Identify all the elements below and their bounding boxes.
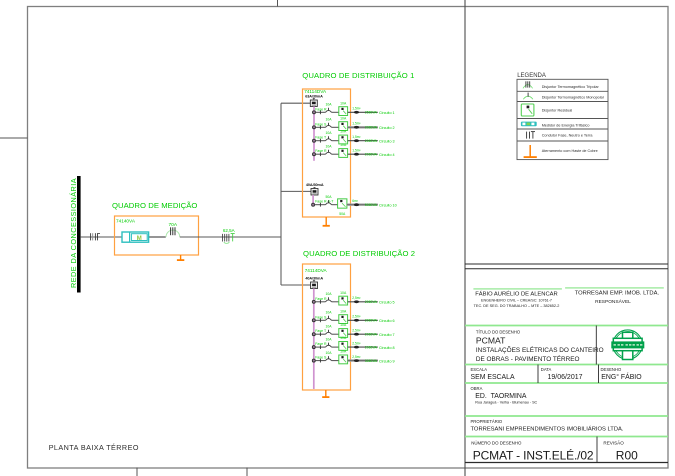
svg-text:Circuito 3: Circuito 3 — [379, 140, 395, 144]
svg-text:10A: 10A — [325, 325, 332, 329]
residual breaker DR 63A/30mA (QD1 main) — [305, 94, 323, 106]
residual breaker DR 40A/30mA (QD1 sub) — [306, 183, 324, 195]
wire: circuito 6 breaker to DR — [332, 319, 339, 321]
wire: branch to QD1 main DR — [281, 102, 311, 104]
svg-text:OBRA: OBRA — [471, 386, 483, 391]
svg-text:2080VA: 2080VA — [365, 346, 378, 350]
wire: circuito 5 breaker to DR — [332, 301, 339, 303]
svg-text:Fase T: Fase T — [315, 136, 327, 140]
wire: circuito 3 outgoing cable (1,5m², 2080VA) — [348, 135, 395, 144]
svg-text:DE OBRAS - PAVIMENTO TÉRREO: DE OBRAS - PAVIMENTO TÉRREO — [476, 354, 580, 363]
svg-text:1,5m²: 1,5m² — [352, 122, 360, 126]
ground: haste de aterramento (QD1) — [323, 217, 330, 227]
svg-text:40A/30mA: 40A/30mA — [306, 183, 324, 187]
svg-text:10A: 10A — [325, 131, 332, 135]
svg-text:INSTALAÇÕES ELÉTRICAS DO CANTE: INSTALAÇÕES ELÉTRICAS DO CANTEIRO — [476, 345, 604, 354]
wire: circuito 2 breaker to DR — [332, 126, 339, 128]
svg-text:63A/30mA: 63A/30mA — [305, 94, 323, 98]
wire: circuito 10 outgoing cable (6m², 5080VA) — [347, 199, 397, 208]
legend symbol: condutor fase neutro e terra — [527, 132, 594, 139]
svg-text:74140VA: 74140VA — [116, 218, 136, 223]
svg-text:2,5m²: 2,5m² — [352, 296, 360, 300]
node: QD1 bus tap circuito 3 — [313, 136, 327, 143]
residual breaker 10A circuito 4 — [339, 143, 348, 157]
legend symbol: disjuntor termomagnetico monopolar — [523, 93, 604, 100]
wire: branch to QD1 second DR — [281, 190, 311, 192]
svg-text:TÍTULO DO DESENHO: TÍTULO DO DESENHO — [476, 330, 521, 335]
svg-text:2080VA: 2080VA — [365, 300, 378, 304]
bus: QD1 sub bus (magenta) — [312, 195, 314, 205]
svg-text:Circuito 2: Circuito 2 — [379, 126, 395, 130]
residual breaker 10A circuito 5 — [339, 291, 348, 305]
wire: circuito 7 outgoing cable (2,5m², 2080VA) — [348, 329, 395, 338]
breaker 10A monopolar circuito 8 — [325, 338, 332, 348]
node: QD2 bus tap circuito 8 — [312, 342, 327, 349]
wire: circuito 1 breaker to DR — [332, 111, 339, 113]
wire: circuito 2 outgoing cable (1,5m², 2080VA) — [348, 122, 395, 131]
breaker 10A monopolar circuito 6 — [325, 311, 332, 321]
svg-text:Circuito 9: Circuito 9 — [379, 359, 395, 363]
wire: circuito 4 breaker to DR — [332, 153, 339, 155]
panel: QUADRO DE MEDICAO (enclosure box) — [112, 201, 199, 255]
svg-text:Circuito 7: Circuito 7 — [379, 333, 395, 337]
svg-text:Fase S: Fase S — [315, 315, 327, 319]
breaker 10A monopolar circuito 3 — [325, 131, 332, 141]
svg-text:Disjuntor Termomagnético Monop: Disjuntor Termomagnético Monopolar — [542, 96, 605, 100]
title block: proprietario row — [471, 419, 624, 432]
wire: branch to QD2 main DR — [281, 284, 311, 286]
node: QD2 bus tap circuito 5 — [312, 297, 327, 304]
svg-text:2580VA: 2580VA — [365, 111, 378, 115]
svg-text:5080VA: 5080VA — [365, 203, 378, 207]
svg-text:10A: 10A — [340, 291, 347, 295]
residual breaker 10A circuito 1 — [339, 101, 348, 115]
svg-text:QUADRO DE MEDIÇÃO: QUADRO DE MEDIÇÃO — [112, 201, 197, 210]
svg-text:DESENHO: DESENHO — [601, 367, 622, 372]
wire: circuito 6 outgoing cable (2,5m², 2080VA) — [348, 315, 395, 324]
panel: QUADRO DE DISTRIBUICAO 2 (enclosure box) — [303, 249, 416, 390]
legend symbol: disjuntor residual — [521, 104, 572, 116]
ground: haste de aterramento (QD2) — [322, 390, 329, 398]
svg-text:TORRESANI EMPREENDIMENTOS IMOB: TORRESANI EMPREENDIMENTOS IMOBILIÁRIOS L… — [471, 426, 624, 433]
svg-text:QUADRO DE DISTRIBUIÇÃO 1: QUADRO DE DISTRIBUIÇÃO 1 — [302, 71, 414, 80]
conductor marks: feeder 62,5A fase/neutro/terra — [223, 228, 235, 243]
svg-text:Fase S: Fase S — [315, 122, 327, 126]
node: QD1 bus tap circuito 4 — [313, 149, 328, 156]
svg-text:Fase R: Fase R — [315, 297, 327, 301]
svg-text:ENG° FÁBIO: ENG° FÁBIO — [601, 372, 642, 381]
svg-text:62,5A: 62,5A — [223, 228, 235, 233]
svg-text:6m²: 6m² — [352, 199, 358, 203]
svg-text:2,5m²: 2,5m² — [352, 341, 360, 345]
svg-text:M: M — [137, 236, 142, 242]
wire: service entrance from utility to quadro de medicao — [81, 236, 166, 238]
svg-text:REDE DA CONCESSIONÁRIA: REDE DA CONCESSIONÁRIA — [69, 178, 78, 288]
svg-text:1,5m²: 1,5m² — [352, 149, 360, 153]
wire: circuito 8 outgoing cable (2,5m², 2080VA) — [348, 341, 395, 350]
svg-text:Medidor de Energia Trifásico: Medidor de Energia Trifásico — [542, 124, 590, 128]
svg-text:2080VA: 2080VA — [365, 153, 378, 157]
node: QD2 bus tap circuito 7 — [312, 329, 327, 336]
wire: circuito 5 outgoing cable (2,5m², 2080VA) — [348, 296, 395, 305]
svg-text:10A: 10A — [325, 145, 332, 149]
wire: circuito 10 breaker to DR — [332, 204, 339, 206]
residual breaker 10A circuito 7 — [339, 323, 348, 337]
svg-text:PCMAT: PCMAT — [476, 336, 506, 346]
svg-text:NÚMERO DO DESENHO: NÚMERO DO DESENHO — [471, 441, 522, 446]
svg-text:PCMAT - INST.ELÉ./02: PCMAT - INST.ELÉ./02 — [473, 447, 594, 462]
svg-text:10A: 10A — [325, 311, 332, 315]
svg-text:2080VA: 2080VA — [365, 126, 378, 130]
wire: distribution riser bus — [280, 103, 282, 285]
svg-text:2080VA: 2080VA — [365, 139, 378, 143]
svg-text:Circuito 8: Circuito 8 — [379, 346, 395, 350]
breaker 50A monopolar circuito 10 — [325, 195, 332, 205]
title block: scale/date/author row — [471, 367, 643, 381]
residual breaker DR 40A/30mA (QD2 main) — [305, 276, 323, 288]
node: QD1 bus tap circuito 10 — [312, 200, 335, 207]
svg-text:Circuito 6: Circuito 6 — [379, 319, 395, 323]
ground: haste de aterramento (medicao) — [177, 255, 184, 261]
wire: circuito 1 outgoing cable (1,5m², 2580VA) — [348, 107, 395, 116]
breaker 10A monopolar circuito 4 — [325, 145, 332, 155]
svg-text:SEM ESCALA: SEM ESCALA — [471, 374, 515, 381]
svg-text:10A: 10A — [340, 116, 347, 120]
svg-text:R00: R00 — [616, 448, 638, 462]
svg-text:74114DVA: 74114DVA — [305, 268, 328, 273]
svg-text:PLANTA BAIXA TÉRREO: PLANTA BAIXA TÉRREO — [49, 443, 139, 452]
svg-text:40A/30mA: 40A/30mA — [305, 276, 323, 280]
svg-text:FÁBIO AURÉLIO DE ALENCAR: FÁBIO AURÉLIO DE ALENCAR — [475, 291, 557, 298]
utility supply bus: REDE DA CONCESSIONARIA — [69, 176, 81, 293]
svg-text:RESPONSÁVEL: RESPONSÁVEL — [595, 298, 631, 305]
legend box LEGENDA — [517, 73, 608, 160]
wire: circuito 8 breaker to DR — [332, 346, 339, 348]
svg-text:Fase R: Fase R — [315, 149, 327, 153]
svg-text:REVISÃO: REVISÃO — [603, 440, 624, 446]
svg-text:10A: 10A — [325, 103, 332, 107]
title block — [465, 264, 668, 463]
svg-text:2080VA: 2080VA — [365, 333, 378, 337]
svg-text:Disjuntor Termomagnético Tripo: Disjuntor Termomagnético Tripolar — [542, 85, 600, 89]
legend symbol: medidor de energia trifasico — [521, 122, 590, 128]
wire: circuito 3 breaker to DR — [332, 140, 339, 142]
svg-text:ENGENHEIRO CIVIL – CREA/SC: 10: ENGENHEIRO CIVIL – CREA/SC: 10761-7 — [481, 298, 552, 302]
residual breaker 10A circuito 9 — [339, 350, 348, 364]
svg-text:TORRESANI EMP. IMOB. LTDA.: TORRESANI EMP. IMOB. LTDA. — [575, 291, 660, 297]
title block: obra row — [471, 386, 538, 404]
breaker 10A monopolar circuito 7 — [325, 325, 332, 335]
residual breaker 10A circuito 3 — [339, 130, 348, 144]
svg-text:Aterramento com Haste de Cobre: Aterramento com Haste de Cobre — [542, 149, 598, 153]
svg-text:Circuito 4: Circuito 4 — [379, 153, 395, 157]
svg-text:2,5m²: 2,5m² — [352, 329, 360, 333]
svg-text:10A: 10A — [340, 101, 347, 105]
svg-text:10A: 10A — [340, 309, 347, 313]
svg-text:Circuito 1: Circuito 1 — [379, 111, 395, 115]
svg-text:TEC. DE SEG. DO TRABALHO – MTE: TEC. DE SEG. DO TRABALHO – MTE – 382652-… — [474, 304, 560, 308]
svg-text:Fase R-S-T: Fase R-S-T — [315, 200, 334, 204]
energy meter M (medidor trifasico) — [122, 232, 166, 242]
svg-text:50A: 50A — [325, 195, 332, 199]
svg-text:74114DVA: 74114DVA — [304, 89, 327, 94]
node: QD1 bus tap circuito 1 — [313, 107, 328, 114]
svg-text:2,5m²: 2,5m² — [352, 315, 360, 319]
svg-text:Circuito 5: Circuito 5 — [379, 301, 395, 305]
bus: QD2 phase bus (magenta) — [313, 289, 315, 390]
title block: company logo — [611, 330, 644, 360]
svg-text:10A: 10A — [340, 143, 347, 147]
wire: circuito 9 breaker to DR — [332, 360, 339, 362]
svg-text:LEGENDA: LEGENDA — [517, 73, 546, 79]
wire: circuito 9 outgoing cable (2,5m², 3080VA) — [348, 355, 395, 364]
bus: QD1 phase bus (magenta) — [313, 107, 315, 161]
residual breaker 50A circuito 10 — [338, 199, 347, 216]
node: QD2 bus tap circuito 6 — [312, 315, 327, 322]
title block: drawing title — [476, 330, 604, 363]
svg-text:Fase T: Fase T — [315, 329, 327, 333]
svg-text:ESCALA: ESCALA — [471, 367, 488, 372]
svg-text:10A: 10A — [325, 292, 332, 296]
breaker 10A monopolar circuito 1 — [325, 103, 332, 113]
svg-text:70A: 70A — [169, 222, 178, 228]
svg-text:10A: 10A — [325, 338, 332, 342]
svg-text:2,5m²: 2,5m² — [352, 355, 360, 359]
svg-text:10A: 10A — [340, 336, 347, 340]
circuit breaker 70A tripolar (medicao) — [166, 222, 180, 237]
node: QD2 bus tap circuito 9 — [312, 356, 327, 363]
svg-text:10A: 10A — [325, 351, 332, 355]
node: QD1 bus tap circuito 2 — [313, 122, 328, 129]
wire: circuito 7 breaker to DR — [332, 333, 339, 335]
svg-text:Disjuntor Residual: Disjuntor Residual — [542, 109, 573, 113]
svg-text:50A: 50A — [339, 212, 346, 216]
svg-text:Rua Jaraguá - Velha - Blumenau: Rua Jaraguá - Velha - Blumenau - SC — [475, 401, 537, 405]
svg-text:10A: 10A — [325, 118, 332, 122]
svg-text:Fase R: Fase R — [315, 107, 327, 111]
svg-text:10A: 10A — [340, 130, 347, 134]
svg-text:19/06/2017: 19/06/2017 — [547, 374, 582, 381]
legend symbol: disjuntor termomagnetico tripolar — [523, 81, 599, 89]
wire: circuito 4 outgoing cable (1,5m², 2080VA) — [348, 149, 395, 158]
svg-text:PROPRIETÁRIO: PROPRIETÁRIO — [471, 419, 503, 424]
svg-text:1,5m²: 1,5m² — [352, 135, 360, 139]
title block: number and revision — [471, 440, 638, 463]
svg-text:Condutor Fase, Neutro e Terra: Condutor Fase, Neutro e Terra — [542, 134, 594, 138]
svg-text:Fase S: Fase S — [315, 356, 327, 360]
conductor marks: fase/neutro/terra at service entrance — [91, 233, 100, 240]
svg-text:ED. TAORMINA: ED. TAORMINA — [475, 393, 527, 400]
wire: feeder from medicao to distribution riser — [180, 236, 281, 238]
svg-text:Fase R: Fase R — [315, 342, 327, 346]
residual breaker 10A circuito 2 — [339, 116, 348, 130]
drawing caption: PLANTA BAIXA TERREO — [49, 443, 139, 452]
svg-text:10A: 10A — [340, 323, 347, 327]
residual breaker 10A circuito 8 — [339, 336, 348, 350]
breaker 10A monopolar circuito 5 — [325, 292, 332, 302]
svg-text:2080VA: 2080VA — [365, 319, 378, 323]
svg-text:Circuito 10: Circuito 10 — [379, 204, 397, 208]
residual breaker 10A circuito 6 — [339, 309, 348, 323]
svg-text:DATA: DATA — [541, 367, 552, 372]
svg-text:QUADRO DE DISTRIBUIÇÃO 2: QUADRO DE DISTRIBUIÇÃO 2 — [303, 249, 415, 258]
title block: responsible engineer — [473, 288, 663, 308]
svg-text:3080VA: 3080VA — [365, 359, 378, 363]
breaker 10A monopolar circuito 2 — [325, 118, 332, 128]
breaker 10A monopolar circuito 9 — [325, 351, 332, 361]
svg-text:1,5m²: 1,5m² — [352, 107, 360, 111]
panel: QUADRO DE DISTRIBUICAO 1 (enclosure box) — [302, 71, 414, 217]
legend symbol: aterramento com haste de cobre — [524, 145, 598, 158]
svg-text:10A: 10A — [340, 350, 347, 354]
